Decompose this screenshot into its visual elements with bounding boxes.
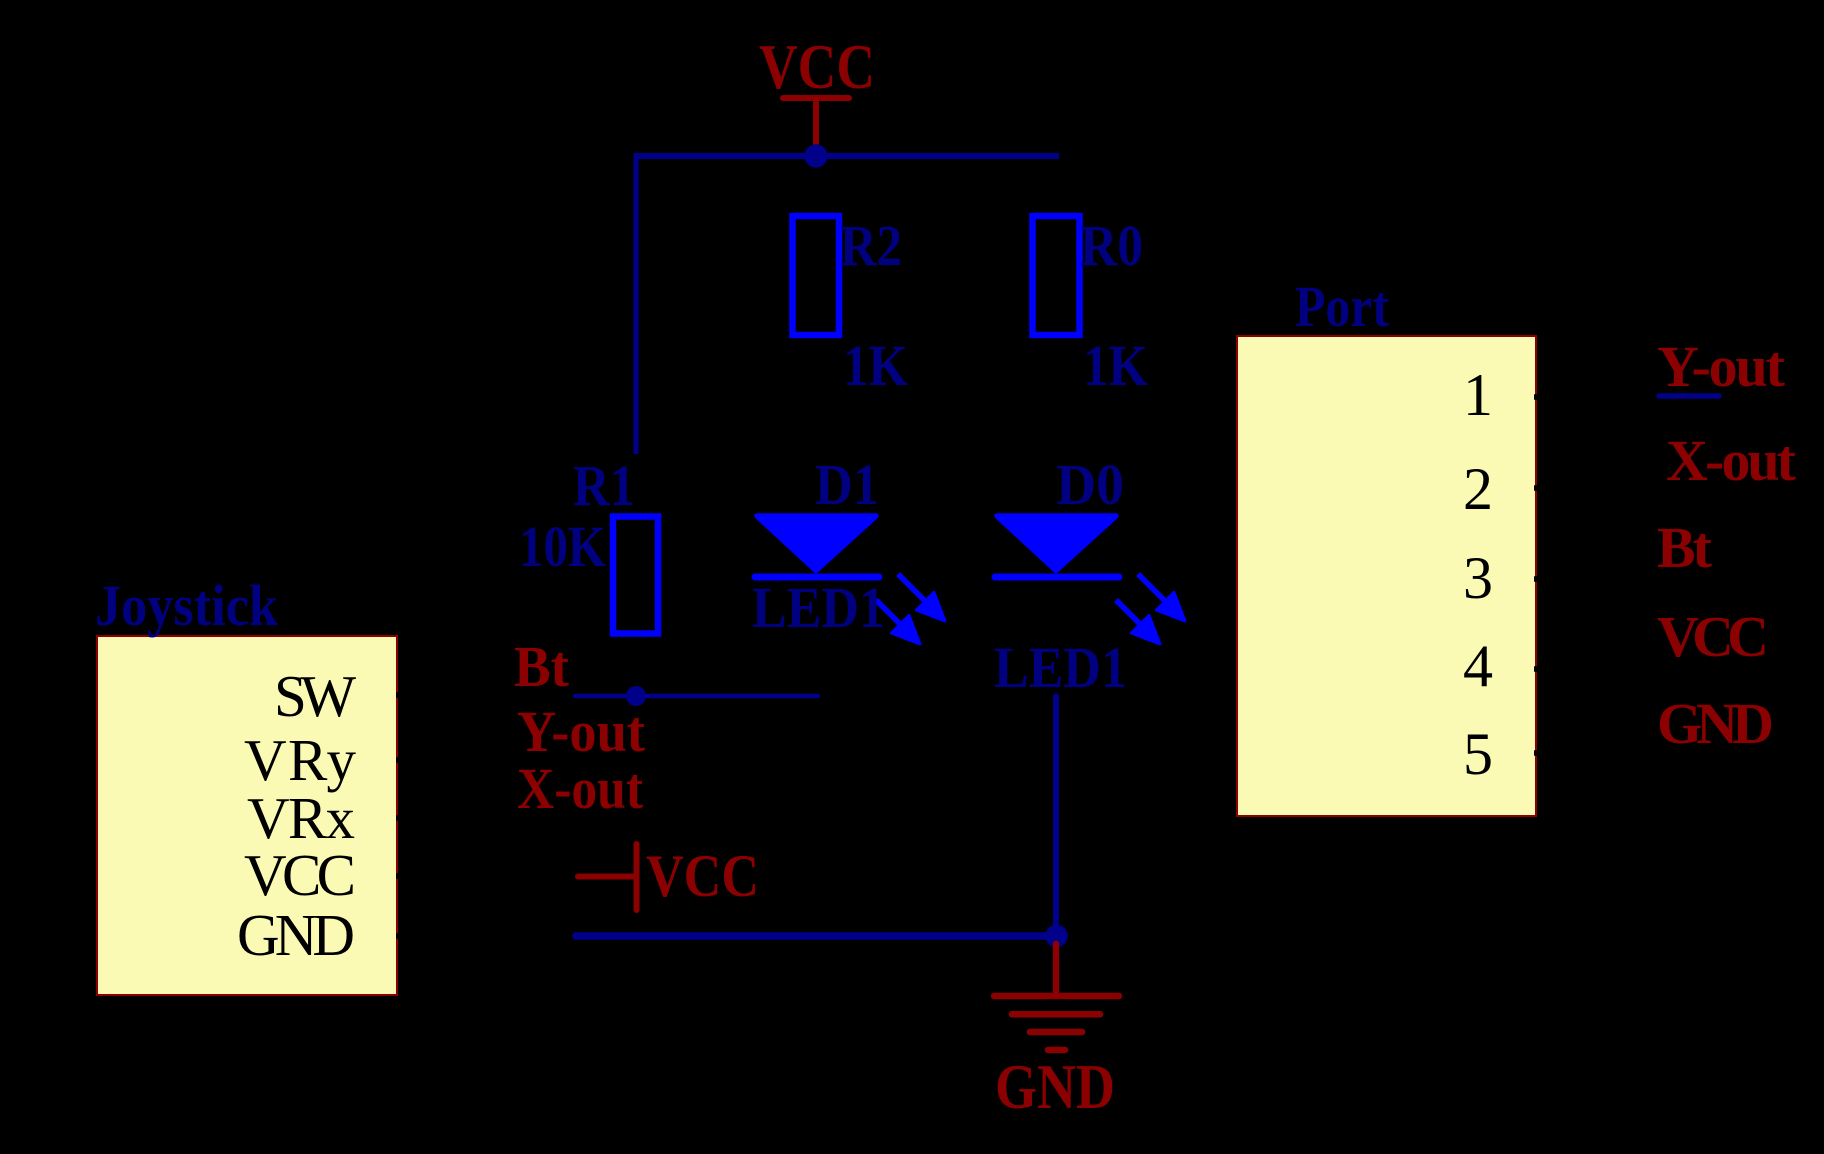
svg-text:GND: GND — [995, 1052, 1115, 1122]
svg-text:3: 3 — [1463, 545, 1493, 611]
svg-text:Y-out: Y-out — [517, 699, 646, 764]
svg-text:GND: GND — [1657, 691, 1774, 756]
svg-text:1: 1 — [1463, 362, 1493, 428]
svg-text:2: 2 — [1463, 456, 1493, 522]
svg-text:VCC: VCC — [244, 842, 356, 908]
svg-text:Joystick: Joystick — [95, 573, 279, 638]
svg-text:SW: SW — [274, 663, 356, 729]
svg-text:10K: 10K — [519, 514, 606, 579]
svg-text:Bt: Bt — [514, 634, 570, 699]
svg-text:VCC: VCC — [646, 843, 759, 909]
svg-text:Y-out: Y-out — [1657, 334, 1786, 399]
svg-text:LED1: LED1 — [752, 575, 885, 640]
svg-text:VCC: VCC — [759, 32, 875, 102]
svg-text:D0: D0 — [1056, 452, 1124, 517]
svg-text:R0: R0 — [1080, 213, 1143, 278]
svg-text:VRy: VRy — [244, 727, 357, 793]
svg-text:1K: 1K — [1083, 333, 1148, 398]
svg-text:Bt: Bt — [1657, 515, 1713, 580]
svg-text:D1: D1 — [815, 452, 879, 517]
svg-text:R2: R2 — [840, 213, 902, 278]
svg-text:VCC: VCC — [1657, 604, 1769, 669]
svg-text:5: 5 — [1463, 721, 1493, 787]
svg-text:X-out: X-out — [1666, 428, 1797, 493]
svg-text:LED1: LED1 — [994, 635, 1127, 700]
svg-text:X-out: X-out — [517, 756, 644, 821]
svg-text:1K: 1K — [843, 333, 908, 398]
svg-text:Port: Port — [1295, 274, 1390, 339]
svg-text:GND: GND — [237, 902, 355, 968]
svg-text:R1: R1 — [573, 453, 635, 518]
svg-text:4: 4 — [1463, 633, 1493, 699]
